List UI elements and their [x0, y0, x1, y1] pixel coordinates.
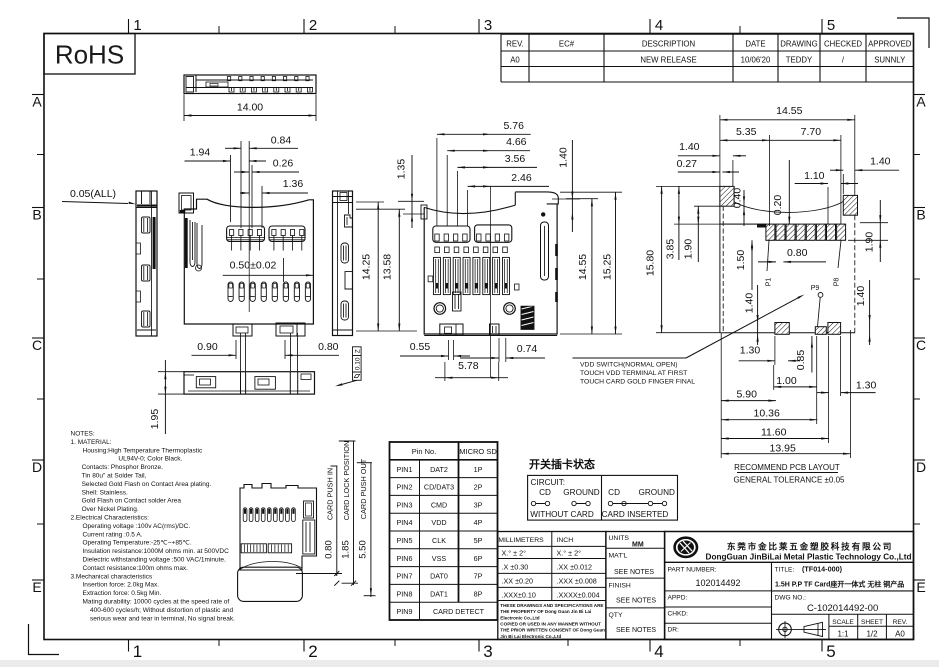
- svg-text:102014492: 102014492: [695, 578, 740, 588]
- svg-text:1.36: 1.36: [283, 178, 304, 190]
- svg-text:SUNNLY: SUNNLY: [874, 56, 906, 65]
- svg-text:3: 3: [484, 17, 492, 34]
- svg-text:4: 4: [654, 642, 663, 661]
- svg-text:APPROVED: APPROVED: [868, 40, 912, 49]
- svg-text:THESE DRAWINGS AND SPECIFICATI: THESE DRAWINGS AND SPECIFICATIONS ARE: [500, 603, 603, 608]
- svg-text:QTY: QTY: [609, 612, 623, 619]
- svg-text:THE PRIOR WRITTEN CONSENT OF D: THE PRIOR WRITTEN CONSENT OF Dong Guan: [500, 628, 605, 633]
- svg-text:7.70: 7.70: [801, 126, 822, 138]
- svg-text:1.5H P.P TF Card座开一体式 无柱 铜产品: 1.5H P.P TF Card座开一体式 无柱 铜产品: [775, 580, 904, 589]
- svg-text:P9: P9: [811, 285, 820, 292]
- svg-text:CARD PUSH IN: CARD PUSH IN: [325, 468, 334, 520]
- svg-text:P8: P8: [834, 278, 841, 287]
- svg-text:MAT'L: MAT'L: [609, 553, 628, 560]
- svg-text:1.30: 1.30: [740, 345, 761, 357]
- svg-text:0.74: 0.74: [517, 343, 538, 355]
- svg-text:UNITS: UNITS: [609, 535, 630, 542]
- svg-text:Mating durability: 10000 cycle: Mating durability: 10000 cycles at the s…: [83, 599, 230, 606]
- svg-text:SEE NOTES: SEE NOTES: [616, 598, 656, 605]
- svg-text:.XXXX±0.004: .XXXX±0.004: [557, 591, 600, 600]
- svg-text:RECOMMEND PCB LAYOUT: RECOMMEND PCB LAYOUT: [734, 463, 840, 472]
- svg-text:MICRO SD: MICRO SD: [459, 447, 497, 456]
- svg-text:A: A: [916, 94, 926, 110]
- svg-text:5.35: 5.35: [736, 126, 757, 138]
- svg-text:开关插卡状态: 开关插卡状态: [529, 457, 595, 471]
- svg-text:CARD LOCK POSITION: CARD LOCK POSITION: [342, 441, 351, 520]
- svg-text:0.05(ALL): 0.05(ALL): [70, 188, 116, 200]
- svg-text:3.85: 3.85: [664, 239, 676, 260]
- svg-text:1: 1: [133, 642, 142, 661]
- svg-text:3.Mechanical characteristics: 3.Mechanical characteristics: [71, 573, 153, 580]
- svg-text:11.60: 11.60: [761, 427, 787, 439]
- svg-text:NOTES:: NOTES:: [71, 431, 95, 438]
- svg-text:TITLE:: TITLE:: [775, 567, 795, 574]
- svg-text:CARD INSERTED: CARD INSERTED: [602, 510, 669, 519]
- svg-text:1/2: 1/2: [866, 630, 878, 639]
- svg-text:X.° ± 2°: X.° ± 2°: [557, 549, 582, 558]
- svg-text:1.30: 1.30: [856, 380, 877, 392]
- svg-text:14.00: 14.00: [237, 102, 263, 114]
- svg-text:PIN9: PIN9: [397, 607, 413, 616]
- svg-text:serious wear and tear in termi: serious wear and tear in terminal, No si…: [90, 615, 235, 622]
- svg-text:A: A: [32, 94, 42, 110]
- svg-text:PIN4: PIN4: [397, 518, 413, 527]
- svg-text:NEW RELEASE: NEW RELEASE: [640, 56, 696, 65]
- svg-text:0.80: 0.80: [324, 540, 335, 559]
- svg-text:VDD: VDD: [431, 518, 446, 527]
- svg-text:2.46: 2.46: [511, 172, 532, 184]
- svg-text:13.95: 13.95: [770, 443, 796, 455]
- svg-text:Operating voltage :100v AC(rms: Operating voltage :100v AC(rms)/DC.: [83, 523, 191, 530]
- svg-text:VSS: VSS: [432, 554, 447, 563]
- svg-text:6P: 6P: [474, 554, 483, 563]
- svg-text:10/06'20: 10/06'20: [741, 56, 771, 65]
- svg-text:0.90: 0.90: [197, 341, 218, 353]
- svg-text:CLK: CLK: [432, 536, 446, 545]
- svg-text:2.Electrical Characteristics:: 2.Electrical Characteristics:: [71, 515, 150, 522]
- svg-text:DAT0: DAT0: [430, 572, 448, 581]
- svg-text:MILLIMETERS: MILLIMETERS: [498, 537, 544, 544]
- svg-text:B: B: [916, 207, 925, 223]
- svg-text:14.55: 14.55: [776, 105, 802, 117]
- svg-text:1.35: 1.35: [396, 159, 408, 180]
- svg-text:.XX ±0.012: .XX ±0.012: [557, 563, 593, 572]
- svg-text:Housing:High Temperature Therm: Housing:High Temperature Thermoplastic: [83, 447, 203, 454]
- svg-text:0.20: 0.20: [772, 195, 784, 216]
- svg-text:15.80: 15.80: [645, 250, 657, 276]
- svg-text:1P: 1P: [474, 465, 483, 474]
- svg-text:0.55: 0.55: [410, 341, 431, 353]
- svg-text:7P: 7P: [474, 572, 483, 581]
- svg-text:CARD PUSH OUT: CARD PUSH OUT: [359, 458, 368, 519]
- svg-text:WITHOUT CARD: WITHOUT CARD: [530, 510, 594, 519]
- svg-text:东莞市金比莱五金塑胶科技有限公司: 东莞市金比莱五金塑胶科技有限公司: [727, 541, 893, 552]
- svg-text:C: C: [32, 337, 42, 353]
- svg-text:0.27: 0.27: [677, 158, 698, 170]
- svg-text:X.° ± 2°: X.° ± 2°: [502, 549, 527, 558]
- svg-text:COPIED OR USED IN ANY MANNER W: COPIED OR USED IN ANY MANNER WITHOUT: [500, 621, 601, 626]
- svg-text:SEE NOTES: SEE NOTES: [616, 627, 656, 634]
- svg-text:DWG NO.:: DWG NO.:: [775, 595, 807, 602]
- svg-text:REV.: REV.: [893, 619, 908, 626]
- svg-text:0.80: 0.80: [318, 341, 339, 353]
- svg-text:CD/DAT3: CD/DAT3: [424, 483, 454, 492]
- svg-text:5: 5: [827, 17, 835, 34]
- svg-text:CD: CD: [608, 488, 620, 497]
- svg-text:0.10: 0.10: [355, 357, 362, 370]
- svg-text:DRAWING: DRAWING: [780, 40, 817, 49]
- svg-text:C-102014492-00: C-102014492-00: [807, 603, 878, 614]
- svg-text:10.36: 10.36: [754, 408, 780, 420]
- svg-text:CD: CD: [539, 488, 551, 497]
- svg-text:PIN5: PIN5: [397, 536, 413, 545]
- svg-text:.XXX ±0.008: .XXX ±0.008: [557, 577, 597, 586]
- svg-text:(TF014-000): (TF014-000): [802, 565, 843, 574]
- svg-text:0.26: 0.26: [273, 158, 294, 170]
- svg-text:EC#: EC#: [559, 40, 575, 49]
- svg-text:5.76: 5.76: [503, 120, 524, 132]
- svg-text:5.50: 5.50: [358, 540, 369, 559]
- svg-text:PIN3: PIN3: [397, 500, 413, 509]
- svg-text:1.40: 1.40: [855, 286, 867, 307]
- svg-text:FINISH: FINISH: [609, 583, 631, 590]
- svg-text:P1: P1: [766, 278, 773, 287]
- svg-text:TEDDY: TEDDY: [786, 56, 813, 65]
- svg-text:0.80: 0.80: [787, 247, 808, 259]
- svg-text:1.40: 1.40: [558, 147, 570, 168]
- svg-text:A0: A0: [510, 56, 520, 65]
- svg-text:4: 4: [655, 17, 663, 34]
- svg-text:Insulation resistance:1000M oh: Insulation resistance:1000M ohms min. at…: [83, 548, 230, 555]
- svg-text:GROUND: GROUND: [563, 488, 599, 497]
- svg-text:Contacts: Phosphor Bronze.: Contacts: Phosphor Bronze.: [82, 464, 163, 471]
- svg-text:Selected Gold Flash on Contact: Selected Gold Flash on Contact Area plat…: [82, 481, 212, 488]
- svg-text:1.40: 1.40: [679, 141, 700, 153]
- svg-text:PIN2: PIN2: [397, 483, 413, 492]
- svg-text:3P: 3P: [474, 500, 483, 509]
- svg-text:0.84: 0.84: [271, 135, 292, 147]
- svg-text:1.95: 1.95: [149, 409, 161, 430]
- svg-text:MM: MM: [632, 542, 644, 549]
- svg-text:E: E: [916, 579, 925, 595]
- svg-text:RoHS: RoHS: [55, 40, 124, 70]
- svg-text:Shell: Stainless.: Shell: Stainless.: [82, 489, 128, 496]
- svg-text:SEE NOTES: SEE NOTES: [614, 569, 654, 576]
- svg-text:DAT2: DAT2: [430, 465, 448, 474]
- svg-text:14.25: 14.25: [361, 254, 373, 280]
- svg-text:1.00: 1.00: [776, 375, 797, 387]
- svg-text:.X ±0.30: .X ±0.30: [502, 563, 529, 572]
- svg-text:Pin No.: Pin No.: [412, 447, 437, 456]
- svg-text:D: D: [32, 459, 42, 475]
- svg-text:1.10: 1.10: [804, 170, 825, 182]
- svg-text:1.40: 1.40: [870, 156, 891, 168]
- svg-text:1.50: 1.50: [735, 250, 747, 271]
- svg-text:5P: 5P: [474, 536, 483, 545]
- svg-text:CARD DETECT: CARD DETECT: [433, 607, 485, 616]
- svg-text:1.40: 1.40: [744, 293, 756, 314]
- svg-text:Over Nickel Plating.: Over Nickel Plating.: [82, 506, 139, 513]
- svg-text:2: 2: [309, 17, 317, 34]
- svg-text:TOUCH VDD TERMINAL AT FIRST: TOUCH VDD TERMINAL AT FIRST: [580, 370, 687, 377]
- svg-text:B: B: [32, 207, 41, 223]
- svg-text:DATE: DATE: [745, 40, 765, 49]
- svg-text:Operating Temperature:-25℃~+85: Operating Temperature:-25℃~+85℃.: [83, 540, 192, 547]
- svg-text:GROUND: GROUND: [639, 488, 675, 497]
- svg-text:8P: 8P: [474, 589, 483, 598]
- svg-text:Current rating :0.5 A.: Current rating :0.5 A.: [83, 531, 143, 538]
- svg-text:VDD SWITCH(NORMAL OPEN): VDD SWITCH(NORMAL OPEN): [580, 362, 678, 369]
- svg-text:5: 5: [826, 642, 835, 661]
- svg-text:SCALE: SCALE: [832, 619, 854, 626]
- svg-text:REV.: REV.: [506, 40, 523, 49]
- svg-text:4.66: 4.66: [506, 136, 527, 148]
- svg-text:Contact resistance:100m ohms m: Contact resistance:100m ohms max.: [83, 565, 189, 572]
- svg-text:A0: A0: [895, 630, 905, 639]
- svg-text:1.90: 1.90: [682, 239, 694, 260]
- svg-text:2: 2: [308, 642, 317, 661]
- svg-text:E: E: [32, 579, 41, 595]
- svg-text:400-600 cycles/h; Without dist: 400-600 cycles/h; Without distortion of …: [90, 607, 233, 614]
- svg-text:PIN7: PIN7: [397, 572, 413, 581]
- svg-text:GENERAL TOLERANCE ±0.05: GENERAL TOLERANCE ±0.05: [734, 476, 846, 485]
- svg-text:0.50±0.02: 0.50±0.02: [230, 260, 277, 272]
- svg-text:1:1: 1:1: [837, 630, 849, 639]
- svg-text:13.58: 13.58: [382, 254, 394, 280]
- svg-text:Insertion force: 2.0kg Max.: Insertion force: 2.0kg Max.: [83, 582, 160, 589]
- svg-text:.XX ±0.20: .XX ±0.20: [502, 577, 534, 586]
- svg-text:CHECKED: CHECKED: [824, 40, 862, 49]
- svg-text:3: 3: [483, 642, 492, 661]
- svg-text:SHEET: SHEET: [861, 619, 883, 626]
- svg-text:PIN8: PIN8: [397, 589, 413, 598]
- svg-text:PART NUMBER:: PART NUMBER:: [668, 567, 717, 574]
- svg-text:Tin 80u" at Solder Tail,: Tin 80u" at Solder Tail,: [82, 473, 147, 480]
- svg-text:0.85: 0.85: [795, 350, 807, 371]
- svg-text:1: 1: [133, 17, 141, 34]
- svg-text:4P: 4P: [474, 518, 483, 527]
- svg-text:DongGuan JinBiLai Metal Plasti: DongGuan JinBiLai Metal Plastic Technolo…: [706, 553, 912, 562]
- svg-text:D: D: [916, 459, 926, 475]
- svg-text:Electronic Co.,Ltd: Electronic Co.,Ltd: [500, 615, 539, 620]
- svg-text:APPD:: APPD:: [668, 595, 688, 602]
- svg-text:PIN1: PIN1: [397, 465, 413, 474]
- svg-text:1. MATERIAL:: 1. MATERIAL:: [71, 439, 112, 446]
- svg-text:THE PROPERTY OF Dong Guan Jin: THE PROPERTY OF Dong Guan Jin Bi Lai: [500, 609, 591, 614]
- svg-text:14.55: 14.55: [577, 254, 589, 280]
- svg-text:INCH: INCH: [557, 537, 574, 544]
- svg-text:1.90: 1.90: [864, 232, 876, 253]
- svg-text:Dielectric withstanding voltag: Dielectric withstanding voltage :500 VAC…: [83, 557, 227, 564]
- svg-text:Gold Flash on Contact solder A: Gold Flash on Contact solder Area: [82, 498, 182, 505]
- svg-text:DR:: DR:: [668, 627, 680, 634]
- svg-text:Jin Bi Lai Electronic Co.,Ltd: Jin Bi Lai Electronic Co.,Ltd: [500, 634, 561, 639]
- svg-text:5.78: 5.78: [458, 360, 479, 372]
- svg-text:1.94: 1.94: [190, 147, 211, 159]
- svg-text:DESCRIPTION: DESCRIPTION: [642, 40, 695, 49]
- svg-text:Extraction force: 0.5kg Min.: Extraction force: 0.5kg Min.: [83, 590, 162, 597]
- svg-text:DAT1: DAT1: [430, 589, 448, 598]
- svg-text:5.90: 5.90: [736, 389, 757, 401]
- svg-text:UL94V-0; Color Black.: UL94V-0; Color Black.: [118, 456, 182, 463]
- svg-text:Z: Z: [354, 349, 361, 353]
- svg-text:CIRCUIT:: CIRCUIT:: [531, 478, 566, 487]
- svg-text:PIN6: PIN6: [397, 554, 413, 563]
- svg-text:C: C: [916, 337, 926, 353]
- svg-text:0.40: 0.40: [732, 188, 744, 209]
- svg-text:CMD: CMD: [431, 500, 447, 509]
- svg-text:2P: 2P: [474, 483, 483, 492]
- svg-text:15.25: 15.25: [602, 254, 614, 280]
- svg-text:CHKD:: CHKD:: [668, 611, 689, 618]
- svg-text:3.56: 3.56: [505, 153, 526, 165]
- svg-text:TOUCH CARD GOLD FINGER FINAL: TOUCH CARD GOLD FINGER FINAL: [580, 379, 695, 386]
- svg-text:.XXX±0.10: .XXX±0.10: [502, 591, 536, 600]
- svg-text:1.85: 1.85: [341, 540, 352, 559]
